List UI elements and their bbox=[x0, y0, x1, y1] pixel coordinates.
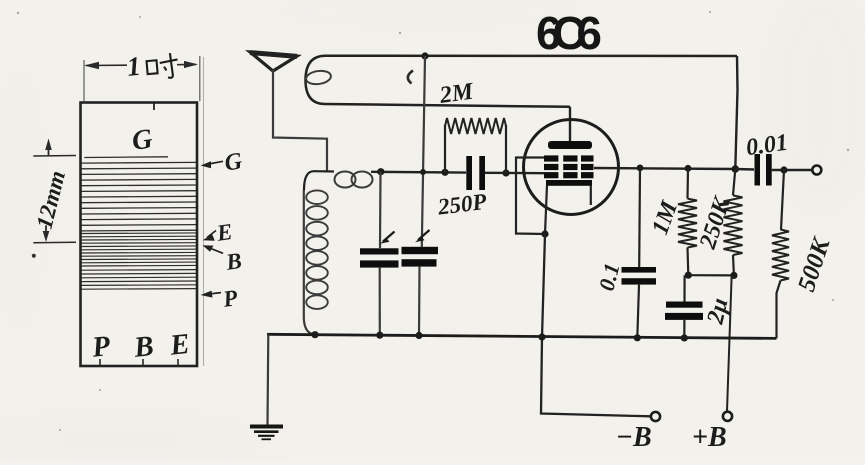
winding hatch section E B bbox=[82, 233, 197, 266]
tickler loop (plate coil) bbox=[306, 56, 738, 107]
svg-text:+B: +B bbox=[692, 422, 727, 453]
tuning coil L (8 turns) bbox=[304, 190, 315, 335]
ground symbol bbox=[266, 334, 269, 424]
coil top turns squiggle bbox=[335, 172, 356, 188]
plate wire right of tube bbox=[594, 168, 735, 169]
cathode bbox=[546, 180, 592, 186]
resistor 500K bbox=[781, 170, 784, 230]
arrow and label B right side bbox=[203, 245, 224, 253]
suppressor tie bracket bbox=[516, 158, 545, 235]
winding hatch section G bbox=[82, 157, 197, 231]
winding hatch section P bbox=[82, 270, 197, 290]
tuning cap C1 (variable) bbox=[379, 172, 382, 248]
arrow and label P right side bbox=[201, 291, 222, 298]
grid leak resistor 2M bbox=[444, 125, 446, 172]
wire to +B bbox=[727, 277, 732, 411]
tuning cap C2 (variable) bbox=[402, 247, 439, 254]
coupling capacitor 0.01 bbox=[735, 168, 754, 171]
top rail right corner down to plate node bbox=[735, 56, 737, 169]
terminal +B bbox=[723, 412, 732, 421]
antenna bbox=[250, 52, 297, 71]
terminal -B bbox=[651, 412, 660, 421]
svg-text:E: E bbox=[168, 328, 192, 362]
tube 6C6 envelope bbox=[524, 120, 619, 215]
svg-text:−B: −B bbox=[616, 422, 652, 453]
svg-text:2M: 2M bbox=[437, 78, 476, 109]
svg-text:B: B bbox=[224, 248, 244, 275]
stray c mark bbox=[408, 71, 413, 84]
dimension 12mm left bbox=[33, 139, 76, 243]
svg-text:E: E bbox=[214, 219, 234, 246]
plate bar and top cap lead bbox=[548, 141, 592, 149]
coil form rectangle bbox=[81, 103, 198, 367]
resistor 1M bbox=[686, 168, 689, 198]
svg-text:G: G bbox=[130, 123, 154, 157]
svg-text:B: B bbox=[132, 330, 156, 364]
svg-text:P: P bbox=[90, 330, 112, 364]
resistor 250K bbox=[733, 169, 735, 195]
ground bus bbox=[267, 334, 777, 338]
vertical wire top rail to tuning cap 2 bbox=[422, 56, 425, 247]
antenna lead wire bbox=[273, 70, 327, 171]
capacitor 2μ bbox=[683, 275, 685, 301]
svg-text:6C6: 6C6 bbox=[536, 7, 602, 59]
top center tick bbox=[153, 103, 155, 110]
cathode wire down to bus and -B bbox=[541, 234, 651, 416]
grid dashes bbox=[544, 155, 558, 161]
output terminal bbox=[812, 166, 821, 175]
arrow and label E right side bbox=[203, 231, 217, 241]
junction dots on grid wire bbox=[377, 168, 384, 175]
capacitor 0.1 bbox=[638, 168, 641, 267]
screen node link bbox=[688, 274, 734, 276]
arrow and label G right side bbox=[201, 161, 224, 168]
junction top rail bbox=[421, 52, 428, 59]
dimension 1 inch top bbox=[84, 56, 200, 101]
grid wire from coil to tube bbox=[304, 171, 334, 190]
grid capacitor 250P bbox=[466, 156, 472, 190]
